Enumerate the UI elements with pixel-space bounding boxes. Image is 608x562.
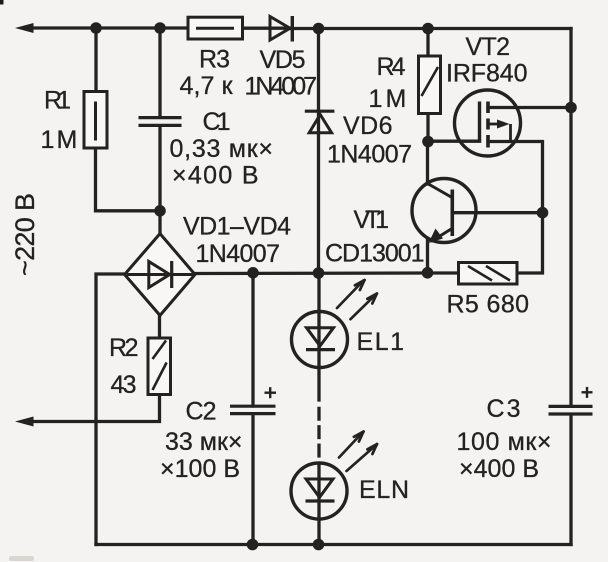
svg-text:R2: R2 [109,334,139,362]
svg-text:VT1: VT1 [354,206,390,234]
capacitor C3 [549,387,593,414]
bridge rectifier VD1-VD4 [125,234,195,316]
wire R1 column top [94,28,97,92]
wire R4 bottom [426,114,429,143]
arrow mains terminal 1 [15,23,34,33]
junction C2 minus [247,539,259,551]
wire C2 column lower [251,414,254,545]
svg-text:43: 43 [111,371,137,399]
wire DC plus rail [195,271,428,275]
svg-text:R1: R1 [44,87,71,115]
wire C2 column upper [251,273,254,406]
junction R1 top [90,22,102,34]
wire C1 column top [158,28,161,117]
junction C2 plus [247,267,259,279]
wire mains2 horizontal [30,395,160,422]
wire C1 to bridge [158,126,161,234]
svg-text:VD1–VD4: VD1–VD4 [183,213,291,241]
arrow mains terminal 2 [15,417,34,427]
wire VT2 drain [488,106,571,109]
EL1 light arrows [337,280,377,319]
svg-text:R3: R3 [199,46,230,74]
wire R4 column top [426,29,429,57]
wire VT2 source [488,142,543,274]
svg-text:CD13001: CD13001 [325,240,425,268]
diode VD5 [270,16,292,42]
junction EL1 anode [313,267,325,279]
svg-text:4,7 к: 4,7 к [180,72,234,100]
wire VT1 base [452,211,542,214]
wire VD6 column top [317,29,320,112]
wire EL1 to dash [317,367,320,400]
wire node to R5 [428,271,459,274]
junction VT1 base / VT2 source [537,207,549,219]
svg-text:VD6: VD6 [343,112,393,140]
diode VD6 [305,111,335,133]
transistor VT1 [412,179,476,244]
resistor R2 [148,338,171,395]
resistor R4 [419,56,441,114]
transistor VT2 MOSFET [455,90,521,156]
svg-text:C3: C3 [487,395,521,423]
wire plus rail to EL1 [317,273,320,367]
svg-text:ELN: ELN [359,476,409,504]
wire left rail lower [96,274,125,545]
svg-text:C1: C1 [203,108,231,136]
wire gate [428,140,480,143]
svg-text:100 мк×: 100 мк× [457,428,552,456]
svg-text:C2: C2 [186,398,217,426]
wire VT1 emitter lower [426,240,429,273]
wire VD6 to plus rail [317,111,320,273]
svg-text:1: 1 [41,126,55,154]
svg-text:М: М [57,126,78,154]
wire R3 to VD5 [242,27,291,30]
LED ELN [291,463,347,519]
svg-text:~220 В: ~220 В [10,193,40,276]
wire dashed ELn [317,408,320,419]
wire bottom rail [96,543,571,546]
svg-text:VD5: VD5 [260,46,306,74]
svg-text:EL1: EL1 [357,328,405,356]
svg-text:33 мк×: 33 мк× [165,428,243,456]
ELN light arrows [339,432,377,472]
wire bridge bottom to R2 [158,315,161,338]
svg-text:×400 В: ×400 В [172,162,259,190]
junction R1/C1 bottom node [154,205,166,217]
capacitor C2 [230,387,276,413]
svg-text:1N4007: 1N4007 [196,240,281,268]
resistor R3 [188,17,243,39]
resistor R5 [459,263,518,285]
wire VD5 to right corner [291,27,571,30]
wire R1 bottom to C1 node [96,148,161,211]
resistor R1 [84,92,107,149]
svg-text:1N4007: 1N4007 [327,141,412,169]
capacitor C1 [139,118,182,126]
smudge bottom-left [9,556,34,561]
LED EL1 [292,312,348,368]
corner mark [0,0,4,5]
svg-text:×400 В: ×400 В [459,455,539,483]
junction C1 top [154,22,166,34]
junction VT1 emitter node [422,267,434,279]
wire right rail upper [569,29,572,406]
svg-text:М: М [386,85,407,113]
wire VT1 collector [426,142,429,184]
svg-text:R5 680: R5 680 [447,291,530,319]
svg-text:×100 В: ×100 В [160,455,240,483]
wire right rail lower [569,416,572,545]
svg-text:1: 1 [369,85,383,113]
junction VD6 top [313,23,325,35]
svg-text:VT2: VT2 [466,33,511,61]
junction ELN cathode [313,539,325,551]
svg-text:0,33 мк×: 0,33 мк× [170,135,274,163]
wire top mains [28,26,188,29]
svg-text:1N4007: 1N4007 [245,73,318,101]
junction R4 top [422,23,434,35]
junction VT2 drain [565,102,577,114]
svg-text:IRF840: IRF840 [446,60,528,88]
svg-text:R4: R4 [377,53,406,81]
junction R4/gate node [422,136,434,148]
wire ELN to bottom [317,464,320,545]
